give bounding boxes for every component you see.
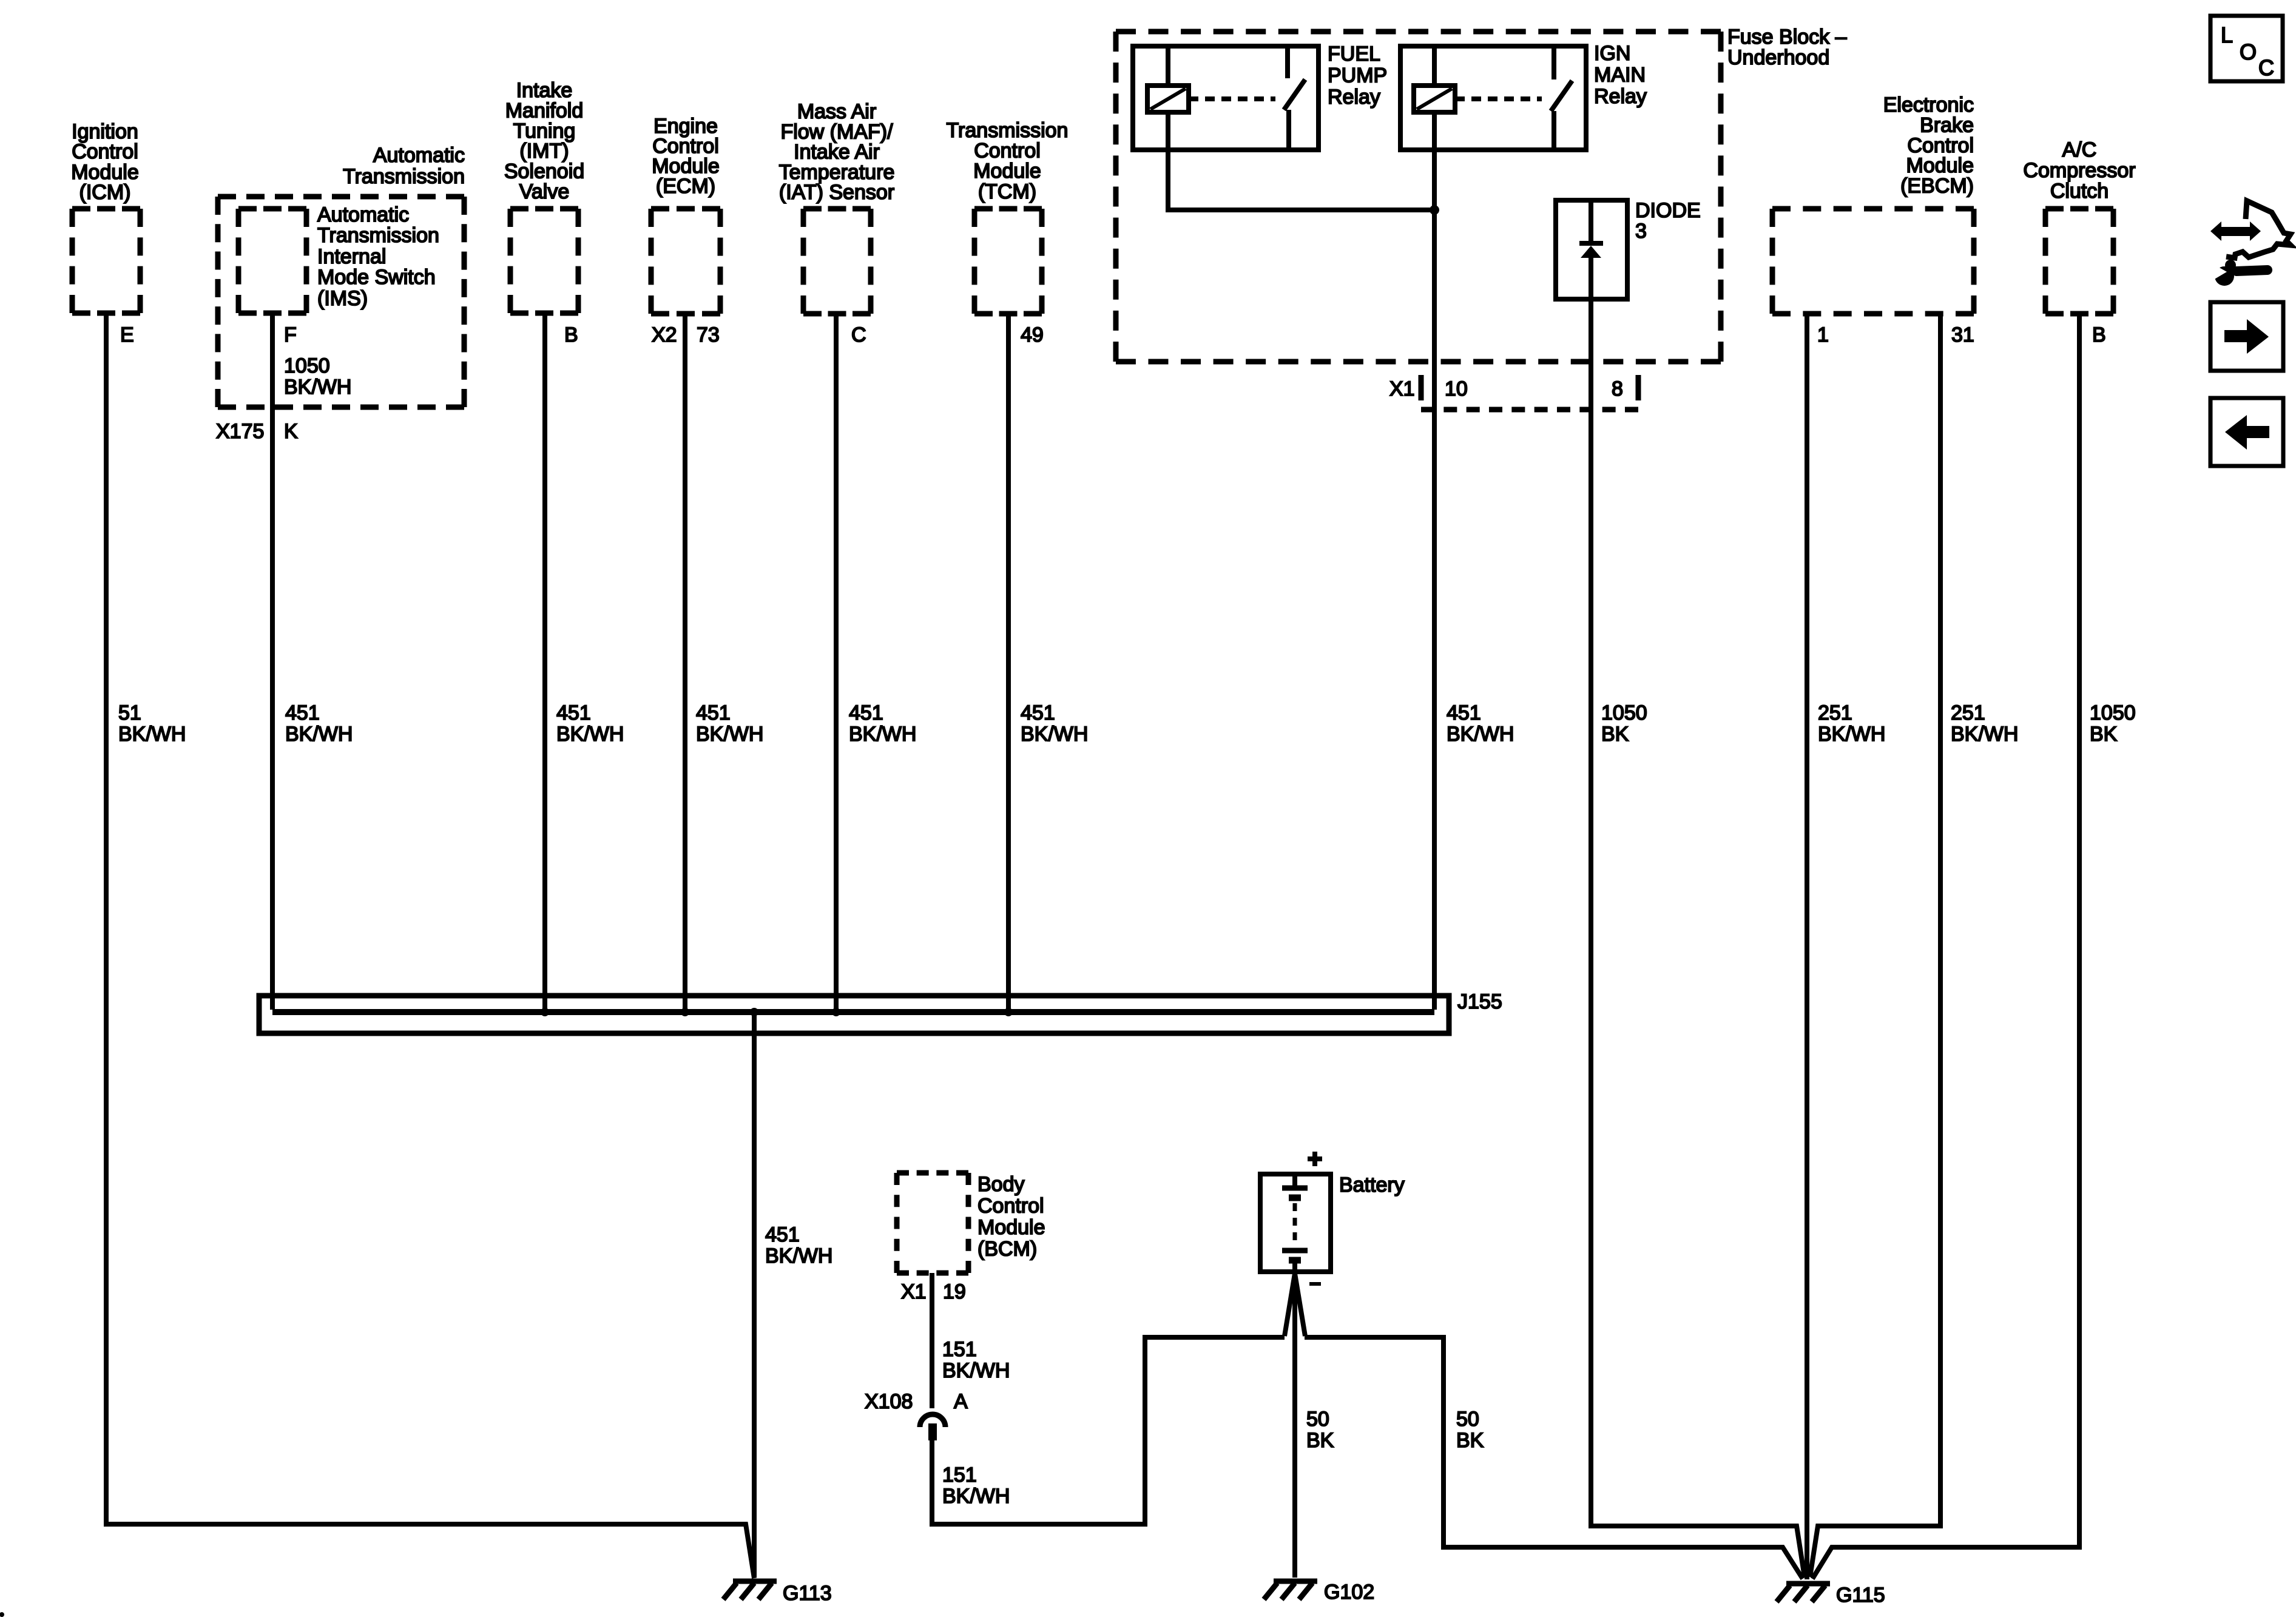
svg-text:G115: G115 [1836, 1584, 1885, 1607]
svg-text:BK: BK [1306, 1429, 1334, 1452]
svg-text:Control: Control [1907, 134, 1974, 157]
svg-text:BK/WH: BK/WH [118, 723, 186, 746]
wire label 1050 BK (A/C) [2090, 701, 2136, 746]
wire label 451 BK/WH (IMS) [285, 701, 353, 746]
svg-text:50: 50 [1456, 1408, 1479, 1431]
svg-text:251: 251 [1951, 701, 1985, 724]
icon LOC [2210, 16, 2283, 81]
icon arrow left [2210, 398, 2283, 466]
icon connector-test (double arrow, terminal outline, wrench) [2209, 201, 2291, 286]
svg-text:Transmission: Transmission [317, 224, 439, 247]
module EBCM (Electronic Brake Control Module) [1772, 93, 1974, 314]
svg-text:BK/WH: BK/WH [1951, 723, 2018, 746]
svg-text:G102: G102 [1324, 1581, 1374, 1604]
wire 451 BK/WH splice J155 drop to G113 [752, 1012, 757, 1578]
svg-text:Mode Switch: Mode Switch [317, 266, 436, 289]
wire 1050 BK/WH from IMS pin F to splice J155 [270, 313, 275, 1010]
svg-text:451: 451 [1021, 701, 1055, 724]
module Automatic Transmission (outer box) [218, 144, 465, 407]
svg-text:10: 10 [1445, 377, 1468, 400]
svg-text:G113: G113 [783, 1582, 832, 1605]
svg-text:Module: Module [977, 1216, 1045, 1239]
wire label 451 BK/WH (TCM) [1021, 701, 1088, 746]
svg-text:X175: X175 [216, 420, 264, 443]
svg-text:151: 151 [942, 1463, 977, 1487]
svg-text:F: F [284, 323, 297, 346]
ground G115 [1777, 1584, 1885, 1607]
svg-text:Automatic: Automatic [373, 144, 465, 167]
svg-text:X1: X1 [1389, 377, 1415, 400]
svg-text:DIODE: DIODE [1635, 199, 1701, 222]
junction dot J155 / G113 drop [750, 1008, 758, 1016]
svg-text:49: 49 [1021, 323, 1044, 346]
svg-text:BK/WH: BK/WH [849, 723, 916, 746]
svg-text:Control: Control [974, 140, 1041, 163]
svg-text:1050: 1050 [284, 354, 330, 377]
svg-text:BK/WH: BK/WH [696, 723, 763, 746]
svg-text:Electronic: Electronic [1883, 93, 1974, 116]
svg-text:C: C [851, 323, 866, 346]
svg-text:PUMP: PUMP [1328, 64, 1387, 87]
wire 451 BK/WH from IMT valve pin B [542, 313, 547, 1012]
wire label 1050 BK (diode) [1601, 701, 1647, 746]
svg-text:Battery: Battery [1339, 1173, 1405, 1197]
splice pack J155 [259, 990, 1502, 1033]
svg-text:1: 1 [1817, 323, 1829, 346]
svg-text:Transmission: Transmission [947, 119, 1069, 142]
wire label 50 BK (right branch) [1456, 1408, 1484, 1452]
svg-text:MAIN: MAIN [1594, 64, 1646, 87]
battery negative V split [1285, 1274, 1295, 1336]
svg-text:(IAT) Sensor: (IAT) Sensor [779, 181, 894, 204]
svg-text:Relay: Relay [1328, 86, 1380, 109]
svg-text:B: B [2092, 323, 2106, 346]
svg-text:X2: X2 [652, 323, 677, 346]
svg-text:(TCM): (TCM) [978, 180, 1036, 203]
svg-text:BK/WH: BK/WH [765, 1244, 832, 1268]
svg-text:73: 73 [697, 323, 720, 346]
wire 251 BK/WH from EBCM pin 1 to G115 [1805, 314, 1809, 1579]
svg-text:Underhood: Underhood [1727, 46, 1829, 69]
svg-text:BK/WH: BK/WH [1818, 723, 1885, 746]
module ECM (Engine Control Module) [651, 115, 720, 314]
svg-text:BK: BK [2090, 723, 2118, 746]
svg-text:Internal: Internal [317, 245, 386, 268]
svg-text:251: 251 [1818, 701, 1852, 724]
wire label 50 BK (G102) [1306, 1408, 1334, 1452]
svg-text:IGN: IGN [1594, 42, 1630, 65]
svg-text:Mass Air: Mass Air [797, 100, 876, 123]
svg-text:50: 50 [1306, 1408, 1329, 1431]
module TCM (Transmission Control Module) [947, 119, 1069, 314]
svg-text:BK/WH: BK/WH [942, 1485, 1010, 1508]
svg-text:Flow (MAF)/: Flow (MAF)/ [780, 120, 893, 143]
svg-text:(ICM): (ICM) [79, 181, 131, 204]
ground G113 [723, 1581, 832, 1605]
svg-text:Module: Module [973, 160, 1041, 183]
wire 451 BK/WH IGN MAIN relay coil through X1-10 to J155 [1432, 150, 1437, 1010]
junction dot J155 / TCM wire [1004, 1008, 1013, 1016]
stray mark bottom-left [0, 1612, 4, 1617]
svg-text:Intake Air: Intake Air [794, 141, 880, 164]
svg-text:451: 451 [556, 701, 591, 724]
svg-text:A/C: A/C [2062, 138, 2097, 161]
wire 251 BK/WH from EBCM pin 31 to G115 [1810, 314, 1940, 1577]
svg-text:451: 451 [285, 701, 320, 724]
svg-text:BK/WH: BK/WH [285, 723, 353, 746]
connector X1 (fuse block) [1389, 375, 1638, 410]
ground G102 [1264, 1581, 1374, 1604]
wire label 451 BK/WH (IMT) [556, 701, 624, 746]
svg-text:451: 451 [849, 701, 883, 724]
wire label 251 BK/WH (EBCM 1) [1818, 701, 1885, 746]
svg-text:E: E [120, 323, 134, 346]
load A/C Compressor Clutch [2023, 138, 2135, 314]
svg-text:Transmission: Transmission [343, 165, 465, 188]
svg-text:Module: Module [1906, 154, 1974, 177]
junction dot J155 / IMT wire [541, 1008, 549, 1016]
svg-text:451: 451 [1447, 701, 1481, 724]
relay K? FUEL PUMP Relay [1133, 42, 1387, 150]
wire label 451 BK/WH (ECM) [696, 701, 763, 746]
svg-text:X108: X108 [865, 1390, 913, 1413]
svg-text:1050: 1050 [1601, 701, 1647, 724]
junction dot J155 / MAF wire [832, 1008, 840, 1016]
svg-text:A: A [954, 1390, 968, 1413]
svg-text:(BCM): (BCM) [977, 1238, 1037, 1261]
svg-text:31: 31 [1951, 323, 1974, 346]
svg-text:C: C [2258, 55, 2274, 80]
wire label 251 BK/WH (EBCM 31) [1951, 701, 2018, 746]
battery [1260, 1152, 1405, 1286]
svg-text:151: 151 [942, 1338, 977, 1361]
wire label 451 BK/WH (G113 drop) [765, 1223, 832, 1268]
svg-text:(IMS): (IMS) [317, 287, 368, 310]
wire 151 BK/WH from BCM X1-19 [930, 1273, 934, 1408]
icon arrow right [2210, 302, 2283, 371]
wire 50 BK battery negative to G115 [1305, 1337, 1803, 1579]
module ICM (Ignition Control Module) [71, 120, 140, 313]
svg-text:(ECM): (ECM) [656, 175, 715, 198]
wire 451 BK/WH from MAF/IAT pin C [834, 314, 839, 1012]
svg-text:BK/WH: BK/WH [1021, 723, 1088, 746]
wire 1050 BK from A/C clutch pin B to G115 [1812, 314, 2079, 1579]
svg-text:Tuning: Tuning [513, 120, 576, 143]
connector X108 pin A [865, 1390, 968, 1440]
svg-text:Fuse Block –: Fuse Block – [1727, 25, 1847, 49]
label 1050 BK/WH (under pin F) [284, 354, 351, 399]
svg-text:BK: BK [1601, 723, 1629, 746]
svg-text:Relay: Relay [1594, 85, 1647, 108]
svg-text:BK/WH: BK/WH [556, 723, 624, 746]
svg-text:Manifold: Manifold [505, 99, 584, 122]
wire 451 BK/WH from ECM pin 73 [683, 314, 687, 1012]
module BCM (Body Control Module) [897, 1173, 1045, 1273]
svg-text:BK/WH: BK/WH [1447, 723, 1514, 746]
svg-text:3: 3 [1635, 220, 1647, 243]
svg-text:BK: BK [1456, 1429, 1484, 1452]
svg-text:(EBCM): (EBCM) [1900, 175, 1974, 198]
svg-text:451: 451 [765, 1223, 800, 1246]
connector label X1 19 (BCM) [901, 1280, 966, 1303]
svg-text:BK/WH: BK/WH [942, 1359, 1010, 1382]
svg-text:Clutch: Clutch [2050, 180, 2109, 203]
svg-text:FUEL: FUEL [1328, 42, 1380, 66]
switch IMS (Automatic Transmission Internal Mode Switch) [238, 203, 439, 313]
svg-text:K: K [284, 420, 298, 443]
wire label 151 BK/WH (upper) [942, 1338, 1010, 1382]
wire 151 BK/WH battery negative to BCM route [932, 1337, 1285, 1524]
junction dot J155 / ECM wire [681, 1008, 689, 1016]
svg-text:1050: 1050 [2090, 701, 2136, 724]
svg-text:19: 19 [943, 1280, 966, 1303]
wire label 451 BK/WH (X1-10) [1447, 701, 1514, 746]
svg-text:O: O [2240, 39, 2257, 64]
junction dot (relay coils) [1430, 205, 1439, 215]
wire 451 BK/WH from TCM pin 49 [1006, 314, 1011, 1012]
svg-text:51: 51 [118, 701, 141, 724]
svg-text:451: 451 [696, 701, 731, 724]
svg-text:Valve: Valve [519, 180, 570, 203]
svg-text:BK/WH: BK/WH [284, 376, 351, 399]
valve IMT (Intake Manifold Tuning Solenoid Valve) [504, 79, 584, 313]
relay K? IGN MAIN Relay [1400, 42, 1647, 150]
svg-text:Intake: Intake [516, 79, 573, 102]
wire FUEL PUMP relay coil to junction [1168, 150, 1432, 210]
svg-text:Control: Control [977, 1195, 1044, 1218]
connector X175 pin K [216, 420, 298, 443]
svg-text:Compressor: Compressor [2023, 159, 2135, 182]
wire 50 BK battery negative to G102 [1292, 1272, 1297, 1578]
pin labels [120, 323, 2106, 346]
svg-text:Control: Control [72, 140, 138, 163]
svg-text:J155: J155 [1457, 990, 1502, 1013]
svg-text:(IMT): (IMT) [519, 140, 569, 163]
wire label 51 BK/WH (ICM) [118, 701, 186, 746]
svg-text:Body: Body [977, 1173, 1025, 1196]
wire 51 BK/WH from ICM pin E to G113 [106, 313, 754, 1578]
wire label 451 BK/WH (MAF) [849, 701, 916, 746]
svg-text:L: L [2221, 22, 2233, 47]
svg-text:Brake: Brake [1920, 113, 1974, 137]
fuse block underhood (dashed enclosure) [1116, 25, 1847, 362]
svg-text:Solenoid: Solenoid [504, 160, 584, 183]
svg-text:X1: X1 [901, 1280, 927, 1303]
wire 1050 BK from diode through X1-8 to G115 [1591, 258, 1805, 1577]
svg-text:Automatic: Automatic [317, 203, 409, 226]
diode DIODE 3 [1556, 199, 1701, 299]
svg-text:B: B [564, 323, 578, 346]
svg-text:8: 8 [1612, 377, 1623, 400]
svg-text:Temperature: Temperature [779, 161, 895, 184]
sensor MAF/IAT [779, 100, 895, 314]
wire label 151 BK/WH (lower) [942, 1463, 1010, 1508]
